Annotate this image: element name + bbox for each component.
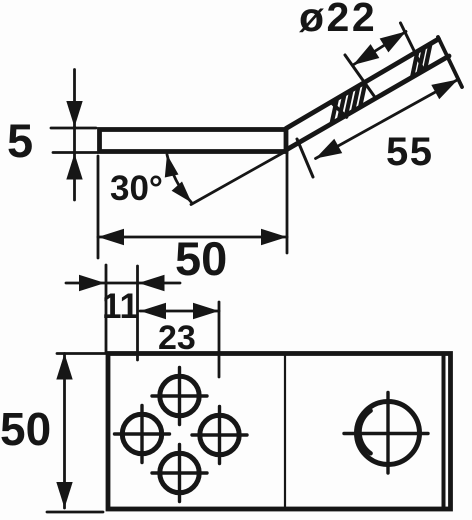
extension line top for 50 (bottom view) [57,352,107,355]
dimension line 50 (bottom view) [63,354,66,509]
extension line 23 right [218,302,221,377]
dimension line 55 [316,80,459,159]
small hole left [122,414,161,453]
extension line top of 5 thickness [51,127,96,130]
bottom view plate outline [108,354,451,510]
hatch band 1 boundary [331,102,347,117]
dimension line 11 left arrow [66,282,105,285]
bent arm lower edge [286,56,449,150]
extension line 55 at bend root [297,139,313,177]
extension line right at bend for 50 (top view) [286,152,289,253]
extension line 11 left [105,265,108,352]
svg-text:50: 50 [0,403,51,455]
svg-text:11: 11 [102,287,139,326]
large hole ghost arc [360,411,371,454]
dimension line 11 right arrow [139,282,181,285]
small hole top [160,376,199,415]
svg-text:ø22: ø22 [299,0,377,40]
bend tangent line right [442,355,446,507]
svg-text:23: 23 [158,319,196,357]
hatch band 1 strokes [332,82,366,124]
large hole [357,402,420,465]
bend line (center) [284,355,286,507]
svg-text:50: 50 [175,232,227,285]
hatch band 2 strokes [412,44,431,78]
30 degree angle line [191,150,288,205]
dimension line 23 [140,310,219,313]
svg-text:30°: 30° [110,169,163,208]
dimension line 5 lower arrow [73,154,76,201]
extension line left for 50 (top view) [97,156,100,258]
extension line bottom of 5 thickness [53,151,97,154]
small hole bottom [160,453,199,492]
dimension line 5 middle segment [73,127,76,153]
flat plate (side view) [100,130,287,152]
svg-text:55: 55 [386,130,434,174]
30 degree angle arc [167,155,192,203]
bent arm upper edge [286,39,439,129]
extension line bottom for 50 (bottom view) [47,511,103,514]
extension line hole upper edge (o22) [401,23,424,70]
extension line hole lower edge (o22) [345,55,376,98]
svg-text:5: 5 [7,114,33,167]
dimension line o22 [353,32,406,66]
dimension line 11 middle [106,282,138,285]
extension line 11 right [136,266,139,360]
small hole right [200,415,239,454]
dimension line 50 (top view) [98,236,287,239]
arm end line / extension for 55 [438,37,462,87]
dimension line 5 upper arrow [73,70,76,128]
